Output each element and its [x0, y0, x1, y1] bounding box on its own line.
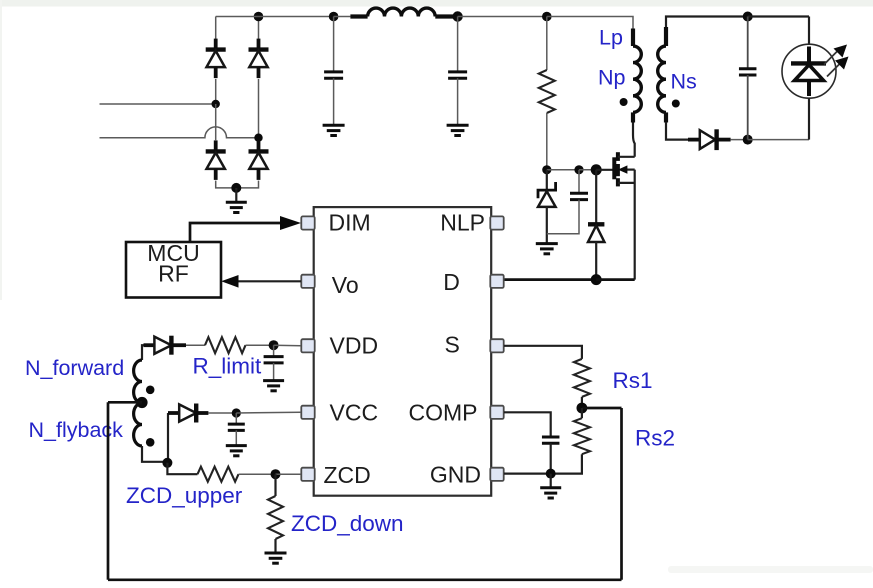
pin box D (right): [490, 275, 503, 288]
LED circle: [782, 44, 836, 98]
ground zener: [536, 244, 558, 254]
wire C6 to ground: [235, 430, 237, 445]
node AC1 junction: [212, 100, 220, 108]
node N_forward phase dot: [146, 386, 155, 395]
wire R_limit to VDD node: [246, 344, 274, 346]
svg-text:N_forward: N_forward: [25, 356, 124, 380]
wire COMP pin to cap: [504, 412, 551, 437]
wire Rs1 to node: [581, 397, 583, 408]
node R1 top: [542, 12, 552, 22]
diode D2 (bridge upper-right): [249, 39, 269, 79]
wire R1 top lead: [546, 17, 548, 71]
node output top: [743, 12, 753, 22]
diode D7 (VDD): [154, 336, 171, 355]
node primary phase dot: [620, 98, 628, 106]
capacitor C5: [264, 357, 284, 363]
wire top rail L1 to R1 node: [458, 16, 547, 18]
wire D5 to D-rail: [595, 242, 597, 280]
wire gate row 1: [547, 169, 579, 171]
wire D rail to source: [596, 278, 635, 281]
wire C3 to zener gnd: [547, 200, 579, 234]
wire right column: [620, 408, 623, 580]
wire MCU to DIM: [190, 223, 286, 242]
transistor Q1 gate bar: [612, 157, 616, 179]
wire D8 to C6 node: [208, 412, 236, 414]
capacitor C5 lead: [273, 345, 275, 356]
capacitor C1: [324, 72, 343, 78]
pin box COMP (right): [490, 406, 503, 419]
page top strip: [0, 0, 873, 7]
wire GND stem: [550, 474, 552, 488]
svg-text:ZCD_upper: ZCD_upper: [126, 483, 243, 508]
wire D4 anode to bridge gnd: [236, 181, 258, 188]
svg-text:VDD: VDD: [330, 333, 379, 359]
diode D5 bar: [588, 222, 604, 226]
svg-text:Vo: Vo: [332, 272, 359, 298]
ground ZCD_down: [265, 553, 287, 563]
wire LED top lead: [808, 17, 810, 45]
wire C7 to GND row: [550, 443, 552, 473]
wire D pin rail: [504, 278, 596, 281]
transistor Q1 channel segments: [616, 152, 620, 186]
pin box S (right): [490, 339, 503, 352]
wire R1 bottom lead: [546, 113, 548, 170]
node L1 output: [452, 11, 462, 21]
pin box ZCD (left): [301, 468, 314, 481]
pin box VCC (left): [301, 406, 314, 419]
wire ZCD node to pin: [276, 473, 302, 475]
transistor Q1 source stub: [618, 182, 635, 184]
diode D6 anode stub: [688, 138, 700, 142]
svg-text:NLP: NLP: [440, 210, 485, 236]
wire AC1 node down: [215, 104, 217, 140]
diode D4 (bridge lower-right): [249, 140, 269, 180]
ground C5: [263, 381, 284, 391]
pin box GND (right): [490, 468, 503, 481]
resistor Rs2: [574, 418, 590, 454]
node C1 top: [329, 12, 339, 22]
svg-text:Lp: Lp: [599, 25, 623, 49]
node secondary phase dot: [672, 100, 680, 108]
node Rs junction: [577, 403, 588, 414]
capacitor C4 (output): [739, 69, 757, 75]
wire bridge right col top: [258, 17, 260, 39]
node VDD junction: [269, 340, 279, 350]
svg-text:Rs2: Rs2: [635, 426, 675, 451]
wire C1 to ground: [333, 78, 335, 125]
diode D7 anode stub: [144, 343, 155, 347]
svg-text:VCC: VCC: [330, 400, 379, 426]
wire VDD node to pin: [274, 344, 301, 347]
wire S pin to Rs1: [504, 346, 582, 359]
svg-text:ZCD: ZCD: [324, 462, 371, 488]
zener ZD1 bar: [538, 182, 556, 198]
node GND row junction: [546, 469, 556, 479]
wire D2 anode to AC node 2: [258, 79, 260, 138]
wire Rs2 to GND row: [504, 454, 582, 473]
pin box NLP (right): [490, 216, 503, 229]
wire gate lead: [596, 169, 612, 171]
node D rail junction: [591, 274, 602, 285]
svg-text:Rs1: Rs1: [613, 368, 653, 393]
wire D7 to R_limit: [186, 344, 205, 346]
wire D5 top lead: [595, 170, 597, 225]
arrow into DIM pin: [280, 216, 301, 230]
svg-text:COMP: COMP: [409, 400, 478, 426]
node AC2 junction: [254, 134, 262, 142]
node winding center tap: [136, 397, 147, 408]
svg-text:GND: GND: [430, 462, 481, 488]
wire VCC node to pin: [236, 411, 301, 414]
transistor Q1 source arrow: [618, 165, 635, 173]
svg-text:Ns: Ns: [671, 70, 697, 94]
inductor L1: [368, 8, 436, 16]
wire zener to ground: [546, 207, 548, 244]
LED emission arrows: [824, 45, 849, 77]
resistor ZCD_upper: [198, 467, 239, 482]
node ZCD junction: [271, 469, 281, 479]
aux winding top lead: [142, 345, 145, 360]
node bridge top junction: [254, 12, 264, 22]
wire LED bottom lead: [808, 98, 810, 139]
wire D6 to output node: [731, 139, 748, 141]
node gate junction: [591, 164, 602, 175]
svg-text:ZCD_down: ZCD_down: [291, 511, 404, 536]
wire source to D-rail: [634, 170, 636, 280]
capacitor C4 bottom lead: [747, 75, 749, 140]
svg-text:RF: RF: [158, 261, 189, 287]
pin box VDD (left): [301, 339, 314, 352]
wire zener lead: [546, 170, 548, 190]
ground C1: [323, 125, 345, 135]
wire top rail bridge to C1: [216, 16, 334, 18]
node N_flyback phase dot: [146, 438, 155, 447]
svg-text:Np: Np: [598, 65, 626, 89]
inductor L1 right stub: [435, 14, 453, 18]
diode D5 triangle: [588, 226, 604, 243]
faint artifact bottom right: [668, 566, 873, 573]
wire center tap to left column: [108, 401, 142, 404]
capacitor C2 lead: [457, 17, 459, 72]
wire ZCD_down to ground: [274, 539, 276, 553]
capacitor C4 (output) lead: [747, 17, 749, 69]
diode D3 (bridge lower-left): [206, 140, 226, 180]
transistor Q1 drain stub: [618, 156, 635, 158]
capacitor C6: [228, 424, 245, 430]
wire D3 anode to bridge gnd: [216, 181, 237, 188]
wire ZCD jog: [167, 463, 197, 474]
node ZCD left junction: [162, 458, 172, 468]
ground C2: [447, 125, 469, 135]
capacitor C6 lead: [235, 413, 237, 424]
wire top rail to primary: [547, 17, 633, 29]
svg-text:D: D: [443, 269, 460, 295]
wire VCC anode stub: [168, 411, 179, 415]
LED symbol: [791, 47, 826, 97]
wire output top to LED: [748, 15, 809, 17]
AC input wire 2 with hopover: [100, 127, 259, 138]
ground C6: [226, 446, 247, 456]
node output bottom: [743, 135, 753, 145]
resistor Rs2 lead: [581, 408, 583, 418]
wire top rail C1 to inductor: [334, 16, 351, 18]
node zener top: [542, 165, 551, 174]
wire bottom rail: [108, 578, 622, 581]
AC input wire 1: [100, 103, 216, 105]
wire Rs node to right column: [582, 407, 622, 410]
wire D1 anode to AC node: [215, 79, 217, 104]
resistor ZCD_down lead: [274, 474, 276, 496]
transformer secondary winding Ns: [658, 46, 666, 112]
svg-text:DIM: DIM: [329, 210, 371, 236]
aux winding N_forward: [134, 360, 142, 403]
capacitor C3: [570, 193, 588, 199]
node C3 top: [574, 165, 583, 174]
diode D8 (VCC): [179, 404, 196, 423]
pin box Vo (left): [301, 275, 314, 288]
wire output bottom to LED: [748, 139, 809, 141]
diode D8 cathode stub: [196, 411, 208, 415]
capacitor C3 lead: [578, 170, 580, 194]
wire bridge left col top: [215, 17, 217, 39]
capacitor C2: [448, 72, 467, 78]
transformer secondary bottom stub: [664, 112, 668, 122]
wire left column down: [107, 402, 110, 580]
wire gate row 2: [579, 169, 596, 171]
resistor ZCD_down: [268, 496, 283, 539]
transformer secondary top stub: [664, 27, 668, 46]
resistor R1 (snubber): [539, 70, 555, 113]
page left strip: [0, 0, 2, 300]
ground bridge: [226, 202, 247, 212]
aux winding N_flyback: [134, 403, 142, 446]
wire C2 to ground: [457, 78, 459, 125]
wire Vo to MCU: [237, 280, 302, 282]
pin box DIM (left): [301, 216, 314, 229]
resistor Rs1: [574, 359, 590, 397]
node bridge bottom junction: [231, 183, 241, 193]
wire VCC left drop: [167, 413, 169, 463]
wire bridge gnd stem: [235, 188, 237, 202]
svg-text:R_limit: R_limit: [193, 354, 263, 379]
transformer secondary lead top: [666, 17, 748, 28]
wire C5 to ground: [273, 363, 275, 381]
capacitor C7 (COMP): [542, 437, 560, 443]
MCU RF box: [126, 242, 221, 298]
capacitor C1 lead: [333, 17, 335, 72]
wire ZCD_upper to node: [239, 473, 276, 475]
transformer primary top stub: [631, 29, 635, 47]
diode D7 cathode stub: [171, 343, 186, 347]
wire secondary bottom lead: [666, 122, 689, 140]
transformer primary winding Np: [633, 46, 641, 112]
node VCC junction: [232, 408, 241, 417]
transformer primary bottom stub: [631, 112, 635, 122]
wire primary to drain: [633, 122, 635, 157]
ground COMP/GND: [540, 488, 561, 498]
resistor R_limit: [205, 337, 246, 353]
IC U1 body: [314, 207, 492, 496]
svg-text:S: S: [445, 331, 460, 357]
arrow into MCU box: [221, 275, 238, 288]
inductor L1 left stub: [350, 14, 367, 18]
zener ZD1 triangle: [538, 191, 556, 207]
diode D6 (output rectifier): [700, 129, 731, 150]
diode D1 (bridge upper-left): [206, 39, 226, 79]
aux winding bottom lead: [142, 446, 167, 462]
